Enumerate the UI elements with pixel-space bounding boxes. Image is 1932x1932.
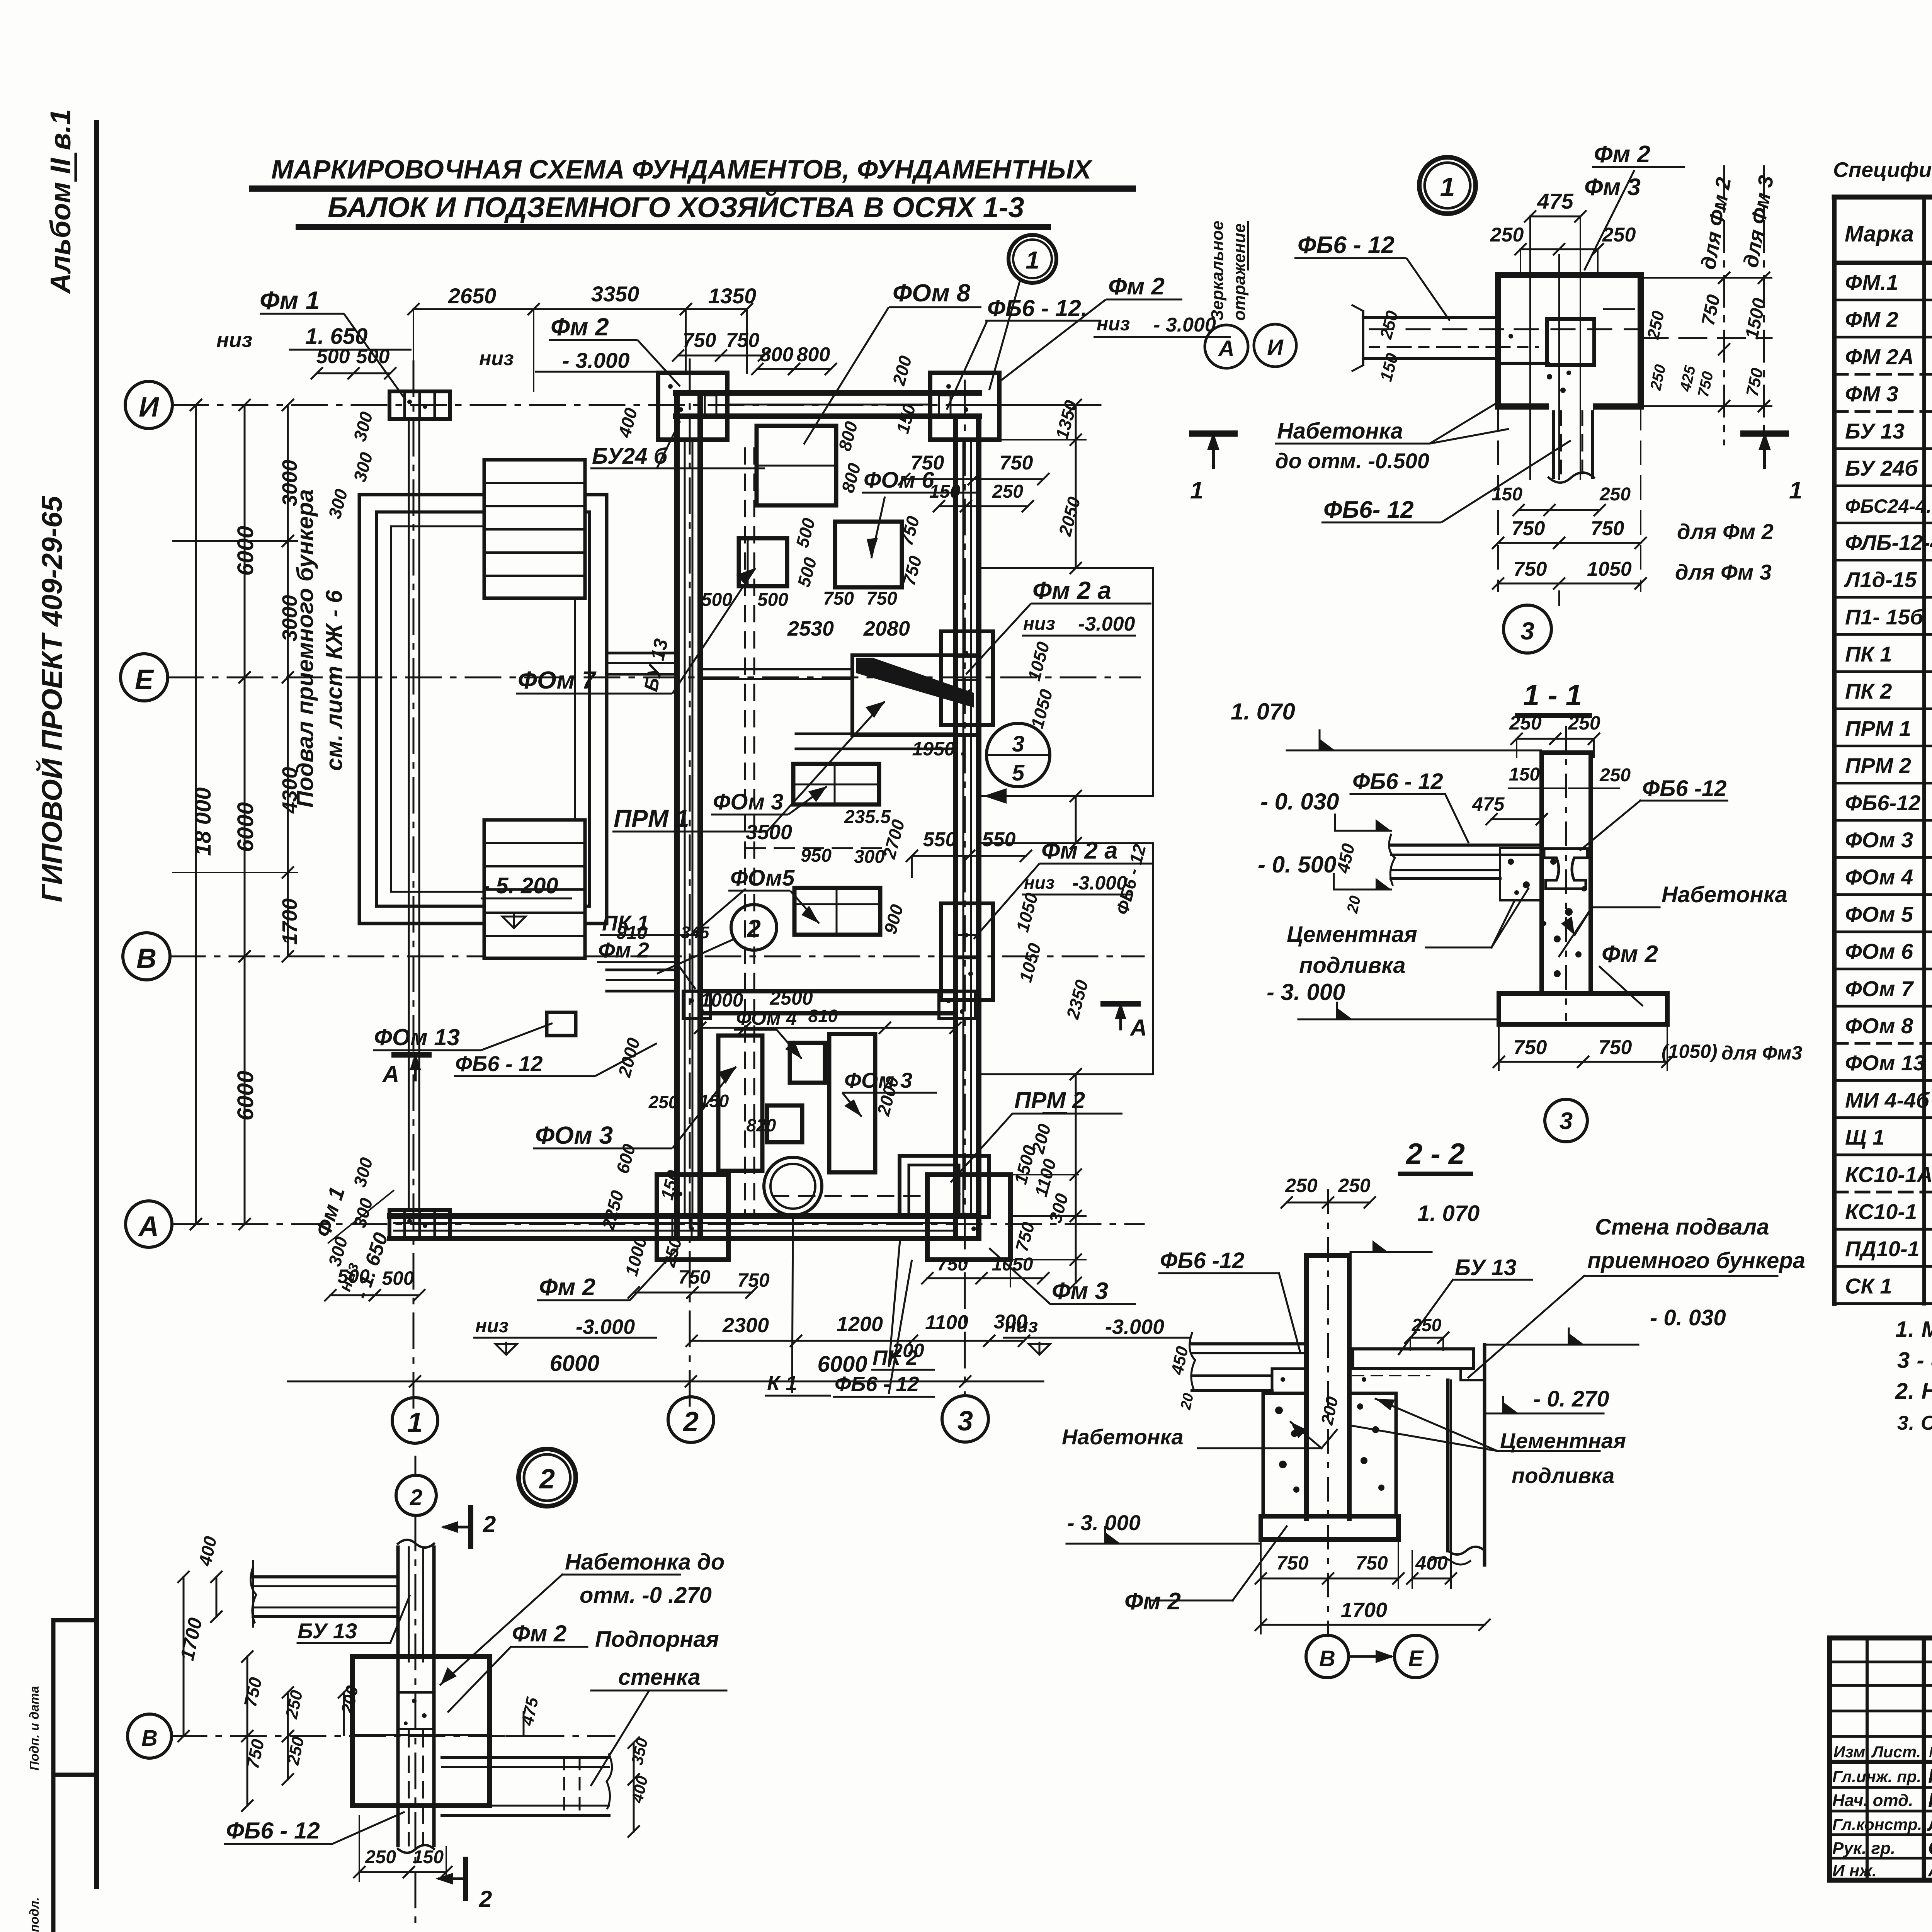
s22 retaining wall <box>1446 1380 1450 1551</box>
svg-text:820: 820 <box>747 1115 776 1135</box>
svg-text:1700: 1700 <box>1341 1599 1387 1622</box>
svg-text:250: 250 <box>1599 484 1631 505</box>
svg-text:750: 750 <box>823 588 854 609</box>
svg-text:- 3. 000: - 3. 000 <box>1267 979 1345 1005</box>
svg-text:Фм 2: Фм 2 <box>551 313 609 341</box>
svg-text:Цементная: Цементная <box>1287 922 1417 947</box>
svg-text:1050: 1050 <box>992 1254 1033 1275</box>
equipment FOm3 upper <box>793 764 879 804</box>
right dim chain of plan <box>1075 405 1077 568</box>
svg-text:1: 1 <box>1190 477 1203 504</box>
svg-text:Стена подвала: Стена подвала <box>1595 1214 1769 1240</box>
s22 dim 250 over lintel <box>1410 1337 1443 1339</box>
svg-text:400: 400 <box>1415 1552 1448 1574</box>
svg-text:Изм: Изм <box>1833 1743 1865 1761</box>
svg-text:отражение: отражение <box>1230 223 1249 321</box>
dim chain 6000x3 <box>244 405 246 1224</box>
node1 vertical centerlines through square <box>1529 232 1531 479</box>
svg-text:1350: 1350 <box>708 284 757 308</box>
svg-text:Е: Е <box>1408 1646 1424 1671</box>
beam FB6-12 axis1 vertical <box>408 419 410 1210</box>
svg-text:Лист.: Лист. <box>1871 1743 1921 1761</box>
svg-text:910: 910 <box>616 923 647 943</box>
equipment tall rect left <box>718 1036 762 1171</box>
s11 dim 250/250 <box>1517 738 1594 740</box>
node1 column band down <box>1552 406 1555 478</box>
node2 vertical beam <box>396 1547 400 1845</box>
svg-text:Фм 2: Фм 2 <box>1594 141 1650 168</box>
svg-text:250: 250 <box>1490 224 1524 246</box>
svg-text:800: 800 <box>797 344 830 366</box>
foundation FM2 top-left <box>658 373 727 440</box>
concrete block B-wall left end <box>683 991 711 1019</box>
svg-text:2: 2 <box>410 1485 422 1510</box>
svg-text:500: 500 <box>701 590 732 610</box>
svg-text:ФОм5: ФОм5 <box>730 866 795 891</box>
basement stair bottom <box>484 820 585 958</box>
svg-text:№ Документа: № Документа <box>1929 1745 1932 1761</box>
svg-text:3: 3 <box>957 1406 973 1437</box>
reference box right upper <box>979 568 1153 796</box>
basement stair top <box>484 460 585 598</box>
svg-text:750: 750 <box>911 452 944 474</box>
dim chain 3000/3000/4300/1700 <box>287 405 289 956</box>
basement outer wall <box>359 495 607 923</box>
node circle 2 pointer <box>731 905 777 950</box>
svg-text:750: 750 <box>1514 1036 1547 1059</box>
svg-text:БУ 13: БУ 13 <box>298 1619 357 1643</box>
svg-text:6000: 6000 <box>233 802 258 852</box>
bottom-left margin boxes <box>53 1620 97 1932</box>
svg-text:3: 3 <box>1520 617 1534 645</box>
svg-text:-3.000: -3.000 <box>576 1315 635 1338</box>
s11 level -0.500 <box>1334 889 1391 891</box>
spec table grid <box>1834 195 1932 200</box>
svg-text:150: 150 <box>929 481 960 502</box>
svg-text:ПРМ 2: ПРМ 2 <box>1845 753 1911 778</box>
svg-text:2: 2 <box>539 1464 555 1495</box>
s22 leaders <box>1159 1272 1279 1274</box>
svg-text:2: 2 <box>682 1406 699 1437</box>
svg-text:ФОм 7: ФОм 7 <box>1845 976 1914 1001</box>
s22 level -0.270 <box>1485 1413 1604 1415</box>
svg-text:810: 810 <box>808 1006 838 1026</box>
connector band B <box>607 969 677 971</box>
svg-text:150: 150 <box>699 1091 729 1111</box>
svg-text:БАЛОК И ПОДЗЕМНОГО ХОЗ: БАЛОК И ПОДЗЕМНОГО ХОЗЯЙСТВА В ОСЯХ 1-3 <box>328 191 1024 223</box>
svg-text:18 000: 18 000 <box>190 787 216 856</box>
equipment FOm7 <box>739 538 787 586</box>
node2 dim chains <box>252 1561 254 1627</box>
svg-text:200: 200 <box>891 1340 924 1361</box>
svg-text:20: 20 <box>1344 894 1364 915</box>
drain K1 <box>764 1157 822 1215</box>
s22 foundation pad <box>1261 1516 1398 1539</box>
axis circle Е <box>121 654 168 701</box>
svg-text:1700: 1700 <box>278 898 301 945</box>
svg-text:1: 1 <box>1440 172 1455 202</box>
node1 section marks 1 <box>1192 430 1235 437</box>
node2 FM2 square <box>352 1656 490 1806</box>
foundation FOm13 small <box>547 1012 576 1036</box>
building right wall <box>953 416 958 1238</box>
album label vertical <box>44 109 77 294</box>
band E interior <box>700 668 852 670</box>
svg-text:1: 1 <box>1789 477 1802 504</box>
bottom dim chain 6000/6000 <box>288 1381 1043 1383</box>
svg-text:БУ 13: БУ 13 <box>1455 1255 1517 1280</box>
section mark A right <box>1103 1001 1138 1007</box>
svg-text:низ: низ <box>1097 313 1130 335</box>
dim chain 550/550 FOm5 <box>912 855 1026 857</box>
svg-text:ФОм 6: ФОм 6 <box>1845 939 1913 964</box>
svg-text:250: 250 <box>365 1847 396 1867</box>
svg-text:ПРМ 1: ПРМ 1 <box>614 804 689 832</box>
svg-text:до отм. -0.500: до отм. -0.500 <box>1275 449 1429 473</box>
node2 small circle 2 <box>396 1475 436 1515</box>
svg-text:Марка: Марка <box>1845 221 1914 247</box>
svg-text:2. Настоящий лист смотреть: 2. Настоящий лист смотреть вместе с лист… <box>1895 1379 1932 1404</box>
node circle 1 pointer <box>1009 235 1056 283</box>
svg-text:235.5: 235.5 <box>844 807 891 827</box>
svg-text:750: 750 <box>678 1266 711 1288</box>
svg-text:для Фм 2: для Фм 2 <box>1677 519 1774 544</box>
equipment FOm5 <box>794 888 880 935</box>
pit PRM1 <box>852 655 978 735</box>
svg-text:ФБ6 -12: ФБ6 -12 <box>1160 1248 1245 1273</box>
svg-text:Подвал приемного бункера: Подвал приемного бункера <box>292 489 318 808</box>
svg-text:ФМ.1: ФМ.1 <box>1845 270 1898 294</box>
s11 level -3.000 <box>1298 1019 1499 1020</box>
svg-text:низ: низ <box>479 347 514 370</box>
dim 750/750 chain <box>678 355 764 357</box>
sheet title line 1 <box>271 155 1093 184</box>
s22 hatch block left <box>1263 1393 1306 1516</box>
s11 column <box>1539 753 1544 993</box>
svg-text:250: 250 <box>648 1092 679 1112</box>
svg-text:Инв.№ подл.: Инв.№ подл. <box>27 1897 41 1932</box>
svg-text:- 0. 270: - 0. 270 <box>1533 1386 1609 1412</box>
node1 beam left <box>1363 316 1498 319</box>
svg-text:150: 150 <box>1509 764 1540 785</box>
svg-text:А: А <box>1218 336 1235 361</box>
axis line И <box>173 404 1101 406</box>
basement inner wall 2 <box>391 526 575 892</box>
svg-text:300: 300 <box>994 1311 1027 1333</box>
svg-text:подливка: подливка <box>1299 953 1406 978</box>
svg-text:А: А <box>138 1211 159 1242</box>
svg-text:ФБ6 - 12: ФБ6 - 12 <box>1298 232 1395 259</box>
node1 dim 250/250 <box>1520 248 1598 250</box>
svg-text:550: 550 <box>923 828 957 851</box>
svg-text:1100: 1100 <box>925 1311 968 1334</box>
s22 left slab <box>1192 1342 1306 1345</box>
svg-text:750: 750 <box>1355 1552 1388 1574</box>
svg-text:800: 800 <box>760 344 794 366</box>
svg-text:МАРКИРОВОЧНАЯ СХЕМА ФУНДАМЕ: МАРКИРОВОЧНАЯ СХЕМА ФУНДАМЕНТОВ, ФУНДАМЕ… <box>271 155 1093 184</box>
svg-text:- 0. 030: - 0. 030 <box>1650 1305 1726 1330</box>
svg-text:А: А <box>1129 1015 1147 1041</box>
s11 level 1.070 <box>1287 750 1541 752</box>
node2 bottom dims 250/150 <box>359 1871 446 1873</box>
svg-text:750: 750 <box>1512 517 1545 540</box>
svg-text:ФБ6 -12: ФБ6 -12 <box>1642 776 1727 801</box>
svg-text:1: 1 <box>1026 246 1039 274</box>
node 3/5 leader arrow <box>983 795 1151 797</box>
svg-text:для Фм3: для Фм3 <box>1721 1042 1802 1064</box>
svg-text:низ: низ <box>216 328 252 352</box>
svg-text:1950 .: 1950 . <box>912 738 966 760</box>
svg-text:2: 2 <box>747 915 761 942</box>
svg-text:- 5. 200: - 5. 200 <box>482 873 558 898</box>
foundation FM2 bottom <box>657 1175 728 1260</box>
svg-text:1. 070: 1. 070 <box>1417 1201 1480 1226</box>
basement inner wall <box>377 512 589 906</box>
svg-text:ФМ 2: ФМ 2 <box>1845 307 1898 332</box>
section mark A left <box>394 1052 429 1058</box>
svg-text:2650: 2650 <box>448 284 497 308</box>
svg-text:см. лист КЖ - 6: см. лист КЖ - 6 <box>321 590 347 771</box>
axis circle В <box>123 933 170 980</box>
svg-text:500: 500 <box>337 1265 370 1287</box>
svg-text:2: 2 <box>483 1511 496 1537</box>
node1 mirror circles <box>1205 325 1248 368</box>
svg-text:низ: низ <box>1023 614 1055 634</box>
svg-text:КС10-1А: КС10-1А <box>1845 1162 1932 1187</box>
sheet title line 2 <box>328 191 1024 223</box>
svg-text:6000: 6000 <box>233 1071 258 1121</box>
svg-text:Е: Е <box>135 664 154 695</box>
node1 inner slab notch <box>1498 362 1549 365</box>
node2 retaining wall right <box>442 1756 609 1759</box>
dim 800/800 chain <box>757 368 831 370</box>
svg-text:2530: 2530 <box>787 617 834 640</box>
svg-text:2: 2 <box>479 1886 492 1912</box>
svg-text:ГИПОВОЙ ПРОЕКТ 409-29-65: ГИПОВОЙ ПРОЕКТ 409-29-65 <box>36 495 68 902</box>
building bottom wall <box>389 1213 979 1219</box>
foundation FM3 bottom <box>927 1175 1010 1260</box>
svg-text:250: 250 <box>1599 765 1631 786</box>
svg-text:Смирнова: Смирнова <box>1928 1837 1932 1859</box>
top dim chain <box>413 308 747 310</box>
node1 bottom dim chains <box>1519 509 1600 511</box>
svg-text:ФЛБ-12-4: ФЛБ-12-4 <box>1845 530 1932 554</box>
node2 top slab left <box>253 1575 398 1578</box>
svg-text:Спецификация элементов к марки: Спецификация элементов к маркировочной с… <box>1833 158 1932 182</box>
svg-text:150: 150 <box>413 1847 444 1867</box>
chain 550/550 upper right <box>911 856 913 877</box>
svg-text:250: 250 <box>1568 712 1600 734</box>
svg-text:ФБ6-12: ФБ6-12 <box>1845 791 1920 815</box>
svg-text:Фм 2: Фм 2 <box>539 1274 595 1301</box>
svg-text:750: 750 <box>1000 452 1033 474</box>
bottom dim chain 750/1050 <box>927 1277 1043 1279</box>
node2 axis B circle <box>128 1714 172 1758</box>
svg-text:- 0. 030: - 0. 030 <box>1260 789 1339 815</box>
reference box right lower <box>979 843 1153 1074</box>
svg-text:1200: 1200 <box>837 1313 883 1336</box>
channel PK2 dashed <box>773 1195 927 1197</box>
s11 hatch zone under slab <box>1500 848 1542 900</box>
svg-text:Набетонка: Набетонка <box>1277 418 1403 444</box>
svg-text:ФОм 3: ФОм 3 <box>713 789 783 815</box>
svg-text:ФМ 3: ФМ 3 <box>1845 382 1898 406</box>
svg-text:ФОм 3: ФОм 3 <box>535 1121 613 1149</box>
axis circle А <box>126 1201 172 1247</box>
svg-text:250: 250 <box>1509 712 1542 734</box>
axis line А <box>173 1223 1144 1225</box>
equipment small rect FOm4 <box>790 1043 825 1083</box>
node2 axis 1 vertical line <box>415 1515 417 1928</box>
svg-text:475: 475 <box>1537 189 1573 213</box>
svg-text:ФОм 3: ФОм 3 <box>1845 828 1913 852</box>
svg-text:250: 250 <box>1285 1175 1318 1196</box>
leaders <box>260 313 344 315</box>
svg-text:БУ 24б: БУ 24б <box>1845 456 1918 480</box>
svg-text:500: 500 <box>316 345 350 368</box>
svg-text:475: 475 <box>1472 793 1505 815</box>
leader lines lower fm3 <box>1010 1175 1011 1287</box>
svg-text:Цементная: Цементная <box>1500 1429 1626 1453</box>
node1 circle <box>1419 157 1476 214</box>
svg-text:А: А <box>382 1061 399 1087</box>
svg-text:-3.000: -3.000 <box>1078 613 1135 635</box>
axis circle И <box>125 381 172 429</box>
s22 level -0.030 <box>1485 1344 1638 1346</box>
equipment FOm8 <box>757 426 836 505</box>
svg-text:500: 500 <box>757 590 788 610</box>
svg-text:Фм 2: Фм 2 <box>1108 273 1165 300</box>
svg-text:ФОм 8: ФОм 8 <box>893 279 971 307</box>
svg-text:ФОм 8: ФОм 8 <box>1845 1014 1913 1038</box>
svg-text:750: 750 <box>683 329 716 352</box>
svg-text:В: В <box>1319 1646 1335 1671</box>
svg-text:ПД10-1: ПД10-1 <box>1845 1236 1920 1261</box>
svg-text:БУ 13: БУ 13 <box>1845 419 1905 443</box>
svg-text:750: 750 <box>866 588 897 609</box>
axis line 2 <box>689 359 691 1410</box>
band below PRM1 <box>796 733 956 735</box>
concrete block B-wall right end <box>939 991 976 1019</box>
axis line В <box>170 956 1144 957</box>
svg-text:2 - 2: 2 - 2 <box>1405 1138 1465 1170</box>
equipment FOm6 <box>835 522 902 587</box>
svg-text:750: 750 <box>1591 517 1624 540</box>
svg-text:- 3.000: - 3.000 <box>562 348 629 372</box>
axis circle 2 <box>668 1397 714 1442</box>
node1 dim 475 <box>1530 216 1580 218</box>
svg-text:500: 500 <box>382 1267 414 1289</box>
svg-text:-3.000: -3.000 <box>1105 1315 1164 1338</box>
svg-text:И нж.: И нж. <box>1832 1861 1877 1880</box>
foundation FM1 bottom (axis1/A) <box>389 1210 450 1238</box>
node2 inner details <box>398 1692 434 1729</box>
svg-text:3 - 8 см. лист КЖ -: 3 - 8 см. лист КЖ - 13, 14 <box>1897 1348 1932 1373</box>
svg-text:ФБ6- 12: ФБ6- 12 <box>1323 497 1414 523</box>
svg-text:ФБ6 - 12: ФБ6 - 12 <box>1352 769 1443 794</box>
foundation FM1 top (axis1/I) <box>389 391 450 419</box>
svg-text:250: 250 <box>992 481 1023 502</box>
s11 small dims <box>1492 818 1542 820</box>
building top wall <box>676 390 979 396</box>
foundation FM2a right lower <box>941 903 993 1000</box>
axis line 1 <box>413 361 415 1412</box>
svg-text:Набетонка до: Набетонка до <box>565 1549 724 1575</box>
svg-text:3350: 3350 <box>591 282 639 306</box>
svg-text:ПРМ 2: ПРМ 2 <box>1014 1087 1085 1113</box>
equipment FOm3 lower tall <box>829 1034 875 1172</box>
building left wall <box>674 393 680 1238</box>
svg-text:1 - 1: 1 - 1 <box>1523 679 1582 712</box>
svg-text:300: 300 <box>854 847 885 867</box>
dim 150/250 right chain <box>939 505 1028 507</box>
dim 500/500 top left <box>317 372 390 374</box>
svg-text:3500: 3500 <box>746 821 792 844</box>
s11 slab band <box>1391 844 1542 847</box>
svg-text:3. Общие указания см. н: 3. Общие указания см. на листе КЖ-12. <box>1897 1412 1932 1434</box>
bottom dim chain 2300/1200/1100/300 <box>692 1340 1024 1342</box>
svg-text:Назаров: Назаров <box>1928 1765 1932 1787</box>
svg-text:Щ 1: Щ 1 <box>1845 1125 1884 1150</box>
specification table title <box>1833 158 1932 182</box>
channel PK1 dashed <box>744 448 746 1213</box>
node2 section mark 2 bottom <box>463 1859 468 1898</box>
s11 circle 3 <box>1545 1099 1587 1142</box>
svg-text:ФБ6 - 12.: ФБ6 - 12. <box>987 295 1087 321</box>
svg-text:ФОм 4: ФОм 4 <box>736 1007 797 1029</box>
svg-text:Фм 2 а: Фм 2 а <box>1032 577 1111 604</box>
svg-text:3: 3 <box>1560 1108 1573 1134</box>
dim chain 3500 <box>746 847 881 849</box>
svg-text:Гл.констр.: Гл.констр. <box>1832 1815 1922 1833</box>
node1 circle 3 <box>1503 605 1551 653</box>
node1 leaders <box>1294 257 1406 259</box>
s11 T-beam cross-section <box>1544 849 1587 889</box>
svg-text:750: 750 <box>1514 558 1547 580</box>
svg-text:Подп. и дата: Подп. и дата <box>27 1686 41 1770</box>
svg-text:1: 1 <box>407 1407 423 1438</box>
svg-text:20: 20 <box>1178 1392 1197 1412</box>
svg-text:Фм 2 а: Фм 2 а <box>1041 837 1118 864</box>
bottom dim chain 750/750 <box>634 1292 752 1294</box>
svg-text:250: 250 <box>1412 1315 1442 1335</box>
svg-text:ПРМ 1: ПРМ 1 <box>1845 716 1911 740</box>
svg-text:750: 750 <box>1599 1036 1632 1059</box>
node2 leaders <box>298 1642 390 1644</box>
s22 lintel BU13 <box>1353 1349 1474 1369</box>
s22 wavy break right <box>1430 1558 1470 1565</box>
svg-text:ФМ 2А: ФМ 2А <box>1845 344 1914 369</box>
svg-text:750: 750 <box>1276 1552 1309 1574</box>
dim chain 18000 <box>195 405 197 1224</box>
svg-text:750: 750 <box>737 1269 770 1291</box>
svg-text:5: 5 <box>1012 760 1025 786</box>
svg-text:ФОм 7: ФОм 7 <box>518 666 597 694</box>
svg-text:низ: низ <box>475 1315 509 1337</box>
svg-text:Фм 1: Фм 1 <box>260 286 320 315</box>
equipment small square <box>767 1105 802 1142</box>
svg-text:ФОм 13: ФОм 13 <box>374 1024 460 1050</box>
s22 axis circles <box>1306 1635 1349 1678</box>
svg-text:В: В <box>141 1726 158 1751</box>
node1 inner pier <box>1547 319 1594 365</box>
project label vertical <box>27 495 68 1932</box>
s22 bottom dims <box>1261 1578 1398 1580</box>
dim chain 1000/2500 <box>700 1027 956 1029</box>
svg-text:ФОм 4: ФОм 4 <box>1845 865 1913 889</box>
svg-text:ФБ6 - 12: ФБ6 - 12 <box>226 1818 320 1844</box>
pit PRM2 <box>900 1156 989 1217</box>
